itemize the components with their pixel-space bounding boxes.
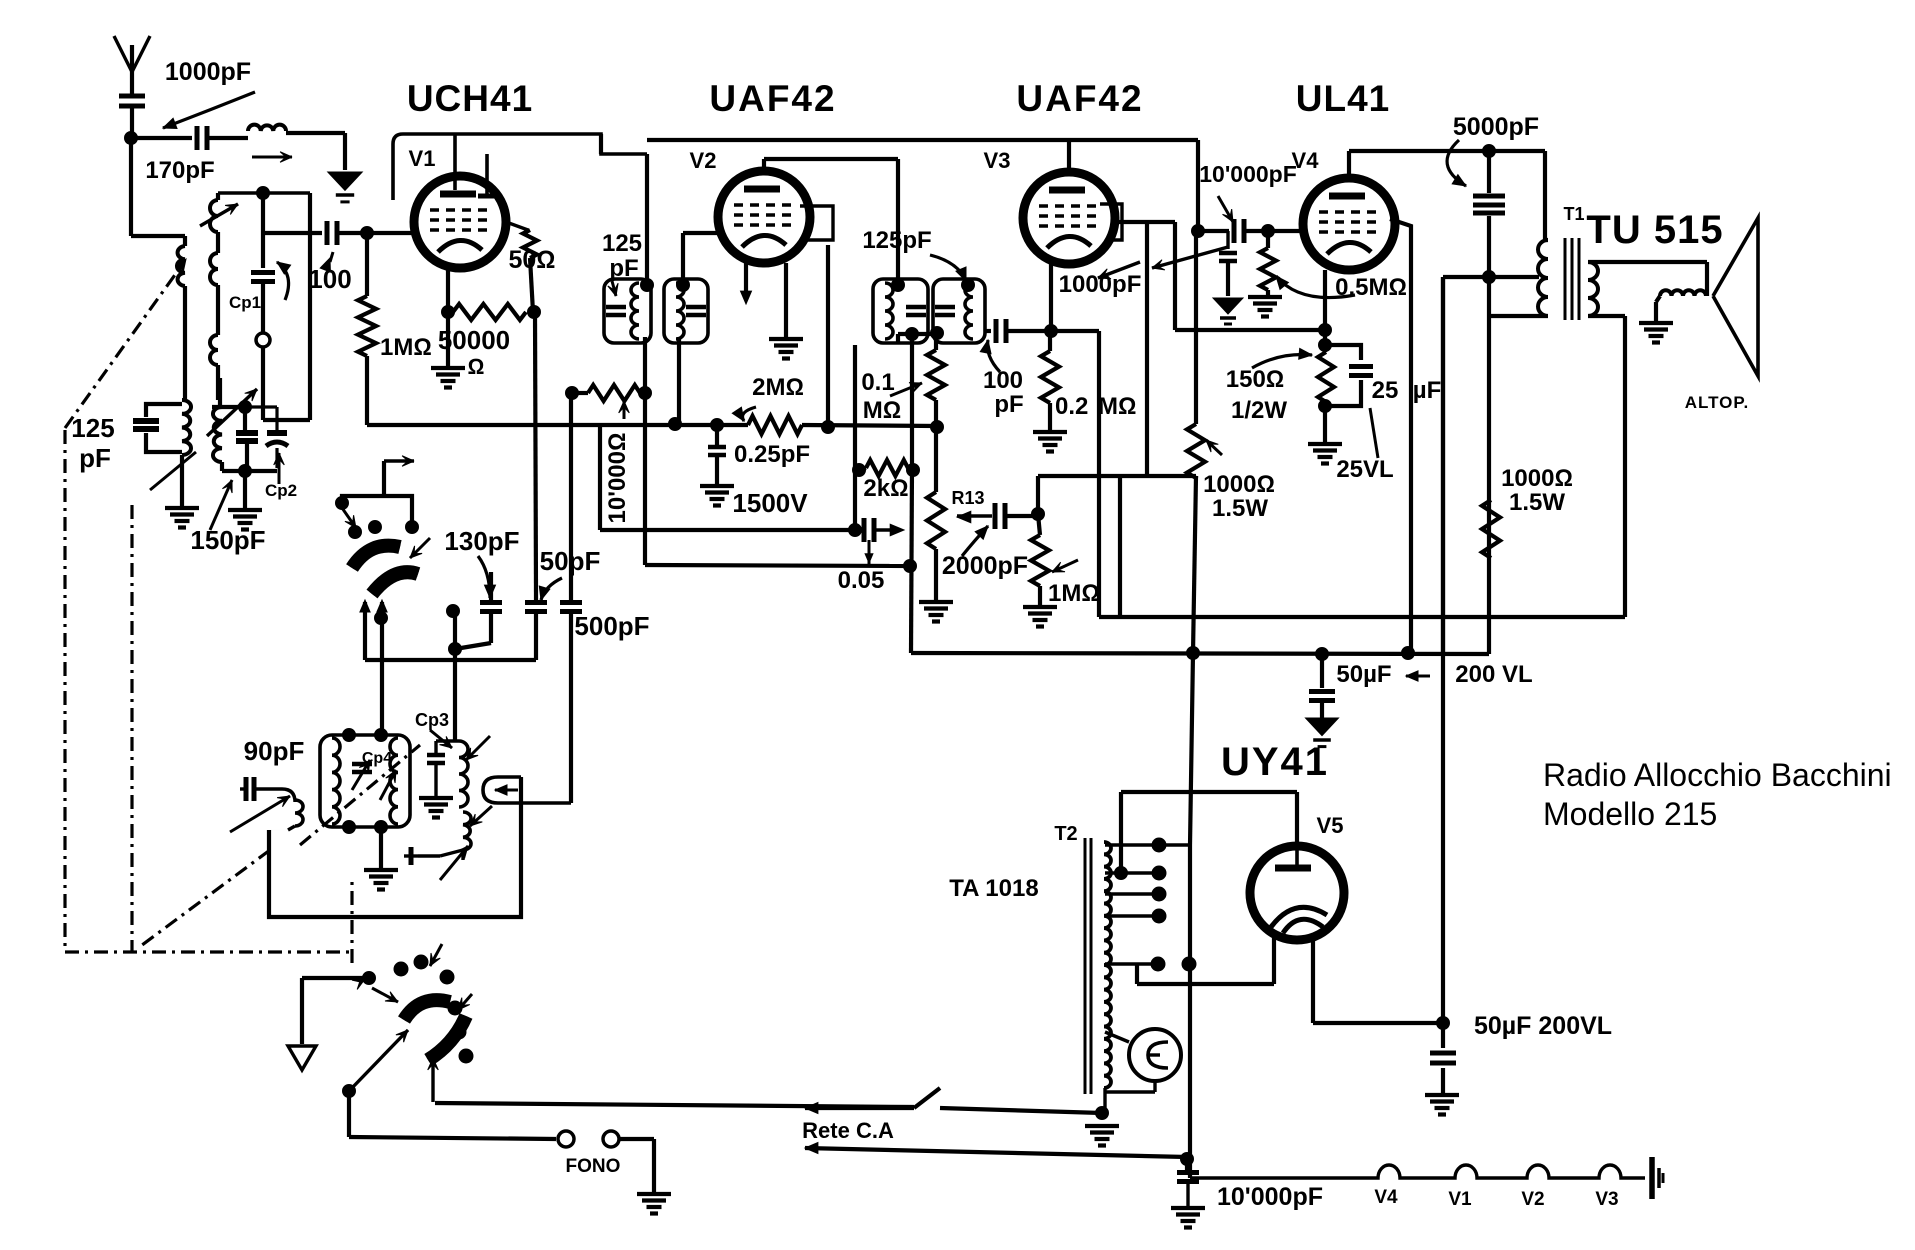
svg-text:125: 125	[71, 413, 114, 443]
svg-text:R13: R13	[951, 488, 984, 508]
svg-text:50µF: 50µF	[1336, 661, 1391, 688]
svg-text:T2: T2	[1054, 823, 1077, 845]
svg-text:90pF: 90pF	[244, 736, 305, 766]
svg-text:1000Ω: 1000Ω	[1501, 465, 1573, 492]
svg-text:5000pF: 5000pF	[1453, 113, 1539, 141]
svg-text:0.1: 0.1	[861, 369, 894, 396]
svg-text:V2: V2	[690, 148, 717, 173]
svg-text:UCH41: UCH41	[407, 78, 533, 119]
svg-text:0.2: 0.2	[1055, 393, 1088, 420]
svg-text:V3: V3	[984, 148, 1011, 173]
svg-text:UL41: UL41	[1296, 78, 1390, 119]
svg-text:170pF: 170pF	[145, 157, 214, 184]
svg-text:125pF: 125pF	[862, 227, 931, 254]
svg-text:1000pF: 1000pF	[165, 58, 251, 86]
svg-text:Cp1: Cp1	[229, 293, 261, 312]
svg-text:V4: V4	[1292, 148, 1320, 173]
svg-text:pF: pF	[994, 391, 1023, 418]
svg-text:Modello 215: Modello 215	[1543, 796, 1717, 832]
svg-text:µF: µF	[1413, 377, 1442, 404]
svg-text:V4: V4	[1374, 1187, 1398, 1208]
svg-text:1500V: 1500V	[732, 488, 808, 518]
svg-text:V2: V2	[1521, 1189, 1544, 1210]
svg-text:100: 100	[308, 264, 351, 294]
svg-text:MΩ: MΩ	[1098, 393, 1136, 420]
svg-text:50Ω: 50Ω	[508, 246, 555, 274]
svg-text:Cp3: Cp3	[415, 710, 449, 730]
svg-text:ALTOP.: ALTOP.	[1685, 393, 1750, 412]
svg-text:10'000pF: 10'000pF	[1199, 161, 1297, 187]
svg-text:150Ω: 150Ω	[1226, 366, 1284, 393]
svg-text:50µF 200VL: 50µF 200VL	[1474, 1012, 1612, 1040]
svg-text:UAF42: UAF42	[709, 78, 836, 119]
svg-text:TU 515: TU 515	[1586, 208, 1723, 252]
svg-text:1MΩ: 1MΩ	[380, 334, 432, 361]
svg-text:25: 25	[1372, 377, 1399, 404]
svg-text:MΩ: MΩ	[863, 397, 901, 424]
svg-text:10'000pF: 10'000pF	[1217, 1183, 1323, 1211]
svg-text:0.25pF: 0.25pF	[734, 441, 810, 468]
svg-text:V5: V5	[1317, 813, 1344, 838]
svg-text:1.5W: 1.5W	[1212, 495, 1268, 522]
svg-text:Cp2: Cp2	[265, 481, 297, 500]
svg-text:FONO: FONO	[566, 1156, 621, 1177]
svg-text:Ω: Ω	[468, 354, 485, 379]
svg-text:1MΩ: 1MΩ	[1048, 580, 1100, 607]
svg-text:2kΩ: 2kΩ	[863, 475, 908, 502]
svg-text:500pF: 500pF	[574, 611, 649, 641]
svg-text:1000Ω: 1000Ω	[1203, 471, 1275, 498]
svg-text:200 VL: 200 VL	[1455, 661, 1532, 688]
svg-text:TA 1018: TA 1018	[949, 875, 1038, 902]
svg-text:100: 100	[983, 367, 1023, 394]
svg-text:Rete C.A: Rete C.A	[802, 1118, 894, 1143]
svg-text:UY41: UY41	[1221, 740, 1329, 784]
svg-text:0.5MΩ: 0.5MΩ	[1335, 274, 1407, 301]
svg-text:2000pF: 2000pF	[942, 552, 1028, 580]
svg-text:pF: pF	[79, 443, 111, 473]
svg-text:Radio Allocchio Bacchini: Radio Allocchio Bacchini	[1543, 757, 1892, 793]
svg-text:1.5W: 1.5W	[1509, 489, 1565, 516]
svg-text:UAF42: UAF42	[1016, 78, 1143, 119]
svg-text:1/2W: 1/2W	[1231, 397, 1287, 424]
svg-text:125: 125	[602, 230, 642, 257]
svg-text:1000pF: 1000pF	[1059, 271, 1142, 298]
svg-text:150pF: 150pF	[190, 525, 265, 555]
svg-text:Cp4: Cp4	[362, 750, 392, 767]
svg-text:V1: V1	[1448, 1189, 1472, 1210]
svg-text:pF: pF	[609, 255, 638, 282]
svg-text:50000: 50000	[438, 325, 510, 355]
svg-text:0.05: 0.05	[838, 567, 885, 594]
svg-text:T1: T1	[1563, 204, 1584, 224]
svg-text:2MΩ: 2MΩ	[752, 374, 804, 401]
svg-text:10'000Ω: 10'000Ω	[604, 433, 631, 524]
svg-text:25VL: 25VL	[1336, 456, 1393, 483]
svg-text:130pF: 130pF	[444, 526, 519, 556]
svg-text:V1: V1	[409, 146, 436, 171]
svg-text:50pF: 50pF	[540, 546, 601, 576]
svg-text:V3: V3	[1595, 1189, 1618, 1210]
